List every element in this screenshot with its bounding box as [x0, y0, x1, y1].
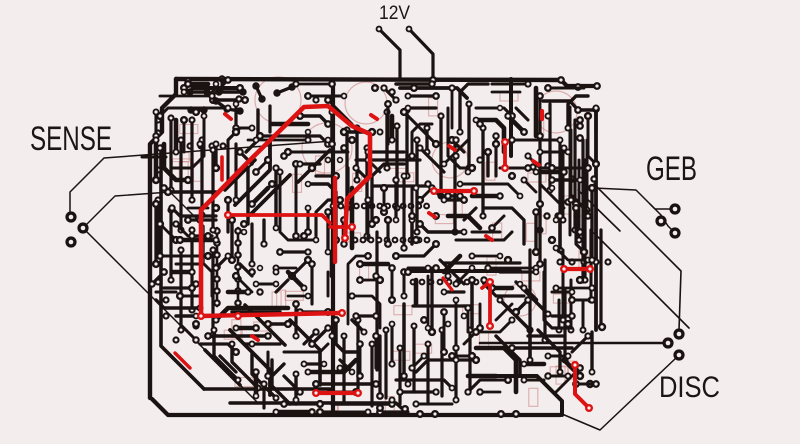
wire — [476, 348, 516, 392]
pad — [405, 381, 412, 388]
wire right bundle — [583, 160, 586, 280]
wire — [516, 108, 528, 120]
pad wedge — [273, 395, 280, 402]
pad right mid cluster — [529, 163, 536, 170]
pad — [209, 146, 216, 153]
pad — [232, 128, 240, 136]
pad — [520, 128, 528, 136]
pad — [556, 246, 563, 253]
wire — [590, 332, 593, 372]
silk outline — [480, 331, 489, 349]
pad — [521, 361, 528, 368]
pad — [546, 186, 553, 193]
IC row pad top — [408, 203, 415, 210]
pad — [304, 248, 311, 255]
SENSE pad 1 — [65, 211, 76, 222]
pad — [492, 140, 500, 148]
staircase 3 — [225, 160, 255, 190]
wire — [268, 322, 288, 325]
pad — [592, 160, 600, 168]
wire — [590, 188, 593, 260]
IC row pad bottom — [408, 237, 415, 244]
wire — [154, 204, 157, 264]
pad — [212, 204, 220, 212]
pad — [288, 272, 296, 280]
IC row 2 pad — [482, 279, 489, 286]
pad top — [410, 84, 418, 92]
pad — [192, 320, 200, 328]
bottom trunk trace — [152, 399, 560, 415]
pad — [392, 96, 399, 103]
pad — [497, 105, 503, 111]
wire — [228, 290, 248, 295]
pad — [316, 408, 324, 416]
pad — [423, 124, 430, 131]
pad — [488, 284, 496, 292]
red pad — [224, 211, 232, 219]
pad — [380, 208, 388, 216]
pad — [460, 196, 468, 204]
red pad — [571, 361, 579, 369]
wire — [444, 140, 468, 164]
wire — [390, 324, 393, 364]
wire vertical bundle — [415, 140, 418, 232]
pad — [453, 297, 460, 304]
IC row 2 pad — [464, 279, 471, 286]
wire — [383, 188, 386, 212]
wire — [396, 82, 432, 85]
wire — [556, 248, 588, 260]
wire — [164, 144, 188, 180]
pad — [383, 108, 390, 115]
wire — [394, 180, 397, 220]
wire — [410, 188, 413, 212]
pad — [301, 285, 308, 292]
pad — [571, 226, 578, 233]
pad bottom trunk — [431, 410, 439, 418]
wire left column — [211, 150, 214, 230]
pad — [176, 292, 184, 300]
silk outline — [487, 257, 496, 275]
IC row pad top — [376, 203, 383, 210]
pad — [526, 326, 533, 333]
wire — [306, 208, 309, 232]
wire right band — [562, 250, 565, 320]
pad — [177, 226, 184, 233]
wire — [234, 104, 237, 128]
wire — [272, 364, 284, 376]
wire right bundle — [538, 120, 541, 230]
wedge stair 4 — [272, 360, 290, 404]
pad — [592, 380, 600, 388]
wire — [412, 356, 424, 368]
right vertical to pad — [599, 230, 602, 327]
IC ladder vertical R — [237, 228, 240, 306]
IC row pad top — [361, 203, 368, 210]
pad — [584, 332, 591, 339]
pad — [420, 316, 428, 324]
pad — [380, 184, 388, 192]
pad — [253, 281, 260, 288]
pad — [432, 92, 440, 100]
pad — [325, 137, 332, 144]
wire — [572, 298, 592, 301]
staircase 7 — [205, 350, 240, 385]
pad — [445, 321, 452, 328]
pad — [544, 112, 551, 119]
capacitor silk circle — [504, 284, 536, 316]
pad — [272, 264, 279, 271]
wire — [284, 344, 328, 352]
pad wedge — [293, 371, 300, 378]
pad — [416, 144, 423, 151]
IC row pad top — [423, 203, 430, 210]
wire tl block 2 — [219, 90, 243, 93]
pad — [356, 340, 364, 348]
wire — [188, 82, 208, 87]
wire — [288, 295, 308, 298]
red mark small — [429, 213, 435, 217]
pad — [232, 348, 240, 356]
wire — [556, 287, 592, 290]
pad — [404, 268, 412, 276]
pad — [396, 388, 404, 396]
pad — [536, 92, 544, 100]
wire — [416, 360, 476, 372]
pad row left — [219, 142, 226, 149]
IC ladder pad L — [213, 239, 221, 247]
wire — [572, 196, 588, 212]
wire tl block 8 — [246, 110, 258, 152]
wire — [260, 136, 328, 144]
wire vertical bundle — [467, 104, 470, 168]
wire — [524, 362, 544, 367]
pad — [249, 341, 256, 348]
pad left column — [154, 278, 161, 285]
pad — [533, 265, 540, 272]
svg-text:SENSE: SENSE — [30, 120, 112, 158]
wire right band — [562, 150, 565, 220]
pad — [585, 257, 592, 264]
IC row 2 pad — [473, 279, 480, 286]
pad — [340, 128, 348, 136]
pad — [352, 312, 359, 319]
pad — [548, 236, 556, 244]
pad — [468, 352, 476, 360]
wire vertical bundle — [481, 128, 484, 216]
IC row pad top — [345, 203, 352, 210]
wire — [480, 391, 500, 394]
IC ladder pad L — [213, 287, 221, 295]
pad — [437, 192, 444, 199]
wire — [332, 402, 392, 405]
wire left column — [179, 140, 182, 230]
red mark small — [449, 146, 455, 150]
wire vertical bundle — [385, 112, 388, 168]
trace y=100 — [213, 98, 245, 102]
wire — [444, 290, 464, 293]
wire — [470, 280, 473, 328]
pad — [536, 260, 544, 268]
pad — [465, 164, 472, 171]
pad — [423, 148, 430, 155]
pad — [479, 212, 486, 219]
wire bottom bundle — [370, 344, 373, 406]
red mark — [443, 278, 452, 290]
pad — [440, 308, 448, 316]
pad — [457, 181, 464, 188]
wire — [344, 130, 372, 133]
wire — [220, 356, 236, 372]
silk outline — [180, 125, 198, 134]
pad — [348, 292, 355, 299]
silk outline — [568, 361, 577, 379]
pad right mid cluster — [564, 198, 571, 205]
pad right mid cluster — [543, 212, 550, 219]
pad — [304, 368, 311, 375]
pad — [332, 316, 340, 324]
pad — [532, 208, 540, 216]
pad top-left block — [200, 106, 207, 113]
wire — [480, 320, 512, 332]
wire vertical bundle — [453, 140, 456, 232]
pad — [248, 268, 256, 276]
wire left column — [169, 210, 172, 280]
pad — [388, 264, 396, 272]
wire — [352, 320, 364, 332]
wire — [476, 108, 512, 116]
pad — [588, 284, 595, 291]
pad — [356, 276, 364, 284]
wire — [262, 220, 265, 244]
silk outline — [526, 223, 535, 241]
wire — [386, 220, 389, 244]
pad top-left block — [186, 88, 193, 95]
wire — [176, 314, 196, 317]
center vertical 2 — [375, 232, 378, 370]
IC ladder pad R — [234, 263, 242, 271]
silk outline — [173, 159, 191, 168]
pad top — [209, 96, 217, 104]
pad — [576, 372, 583, 379]
pad — [440, 348, 448, 356]
pad — [461, 313, 468, 320]
pad row left — [197, 142, 204, 149]
pad top-left block — [212, 97, 219, 104]
wire — [296, 83, 332, 86]
IC row 2 pad — [428, 279, 435, 286]
pad wedge — [229, 341, 236, 348]
pad — [552, 284, 559, 291]
wire — [548, 355, 568, 358]
wire — [342, 220, 347, 244]
pad — [208, 92, 215, 99]
wire — [572, 336, 588, 352]
wire — [240, 152, 252, 164]
pad — [233, 197, 240, 204]
wire — [327, 272, 330, 296]
wire — [254, 372, 259, 396]
wire horizontal y306 — [413, 304, 470, 307]
pad — [376, 392, 384, 400]
pad — [268, 180, 276, 188]
pad — [264, 372, 272, 380]
wire right band — [578, 160, 581, 240]
pad — [188, 232, 195, 239]
pad — [368, 128, 376, 136]
bottom trace y=389 — [204, 387, 330, 391]
top-right row 2 — [543, 101, 596, 110]
pad — [524, 152, 531, 159]
br stair 2 — [516, 282, 548, 314]
silk outline — [343, 233, 361, 242]
wire — [240, 264, 252, 276]
wire — [540, 184, 564, 208]
IC row pad bottom — [400, 237, 407, 244]
silk outline — [556, 366, 565, 384]
pad — [428, 184, 435, 191]
IC row pad bottom — [392, 237, 399, 244]
pad — [476, 324, 484, 332]
pad — [581, 276, 588, 283]
pad — [504, 376, 512, 384]
top trunk trace — [176, 79, 561, 80]
wire bottom bundle — [412, 326, 415, 392]
pad — [364, 148, 371, 155]
wire — [250, 224, 253, 264]
wire — [390, 116, 395, 140]
silk outline — [463, 305, 481, 314]
pad — [388, 136, 395, 143]
red pad — [486, 322, 494, 330]
red pad — [486, 278, 494, 286]
pad — [588, 297, 595, 304]
wire — [500, 166, 528, 169]
wire bottom bundle — [426, 344, 429, 404]
pad — [312, 380, 320, 388]
pad — [152, 136, 159, 143]
pad — [453, 345, 460, 352]
IC ladder pad R — [234, 275, 242, 283]
pad — [536, 148, 543, 155]
wire — [464, 208, 476, 220]
wire — [160, 108, 228, 116]
pad — [341, 333, 348, 340]
pad — [213, 141, 220, 148]
wire — [288, 151, 348, 154]
wire — [176, 264, 212, 296]
IC ladder pad L — [213, 263, 221, 271]
pad — [388, 296, 396, 304]
wire — [176, 224, 188, 236]
wire horizontal y271 — [412, 269, 520, 273]
wire — [500, 270, 536, 273]
pad — [356, 372, 364, 380]
pad — [437, 112, 444, 119]
pad — [308, 164, 316, 172]
pad — [308, 340, 316, 348]
pad — [328, 108, 335, 115]
pad — [292, 300, 300, 308]
pad — [425, 325, 432, 332]
wire — [248, 139, 308, 142]
pad — [292, 160, 300, 168]
wire right bundle — [558, 140, 561, 250]
wire horizontal y263 — [444, 261, 520, 264]
silk outline — [396, 173, 414, 182]
pad — [332, 236, 340, 244]
pad — [353, 124, 360, 131]
pad — [153, 109, 160, 116]
red trace DISC area — [575, 366, 589, 408]
pad — [409, 217, 416, 224]
pad — [403, 106, 410, 113]
wire bottom bundle — [440, 330, 443, 396]
pad — [572, 200, 580, 208]
pad — [456, 128, 463, 135]
pad — [232, 272, 240, 280]
pad — [154, 256, 161, 263]
vertical trunk x=511 — [509, 79, 513, 156]
staircase 1 — [235, 140, 270, 205]
pad — [273, 269, 280, 276]
pad — [372, 216, 380, 224]
wire — [214, 144, 217, 168]
silk outline — [553, 294, 571, 303]
wire — [538, 204, 541, 264]
wire — [172, 270, 192, 275]
wire — [360, 279, 380, 282]
silk outline — [171, 153, 189, 162]
pad — [432, 212, 440, 220]
silk outline — [414, 344, 432, 353]
wire — [539, 96, 542, 136]
pad — [196, 216, 203, 223]
pad — [364, 196, 371, 203]
pad — [253, 393, 260, 400]
pad — [560, 317, 567, 324]
pad — [245, 161, 252, 168]
pad — [332, 316, 339, 323]
pad — [252, 324, 260, 332]
silk outline — [429, 98, 438, 116]
wire bottom bundle — [342, 336, 345, 402]
pad — [372, 380, 380, 388]
svg-text:12V: 12V — [379, 3, 410, 24]
red pad — [341, 234, 349, 242]
silk outline — [235, 378, 253, 387]
IC ladder pad R — [234, 299, 242, 307]
pad right mid cluster — [584, 212, 591, 219]
pad — [568, 296, 576, 304]
wire — [256, 160, 268, 172]
pad — [484, 264, 491, 271]
pad — [313, 237, 320, 244]
wire — [486, 152, 489, 176]
pad — [392, 176, 399, 183]
pad — [508, 136, 515, 143]
wire — [232, 310, 280, 313]
wire — [172, 208, 216, 216]
wire — [468, 374, 496, 379]
pad — [376, 128, 383, 135]
wire bottom bundle — [468, 330, 471, 392]
pad — [521, 285, 528, 292]
wire — [492, 216, 504, 228]
wire — [420, 188, 432, 200]
wire — [552, 290, 572, 293]
pad — [204, 252, 212, 260]
